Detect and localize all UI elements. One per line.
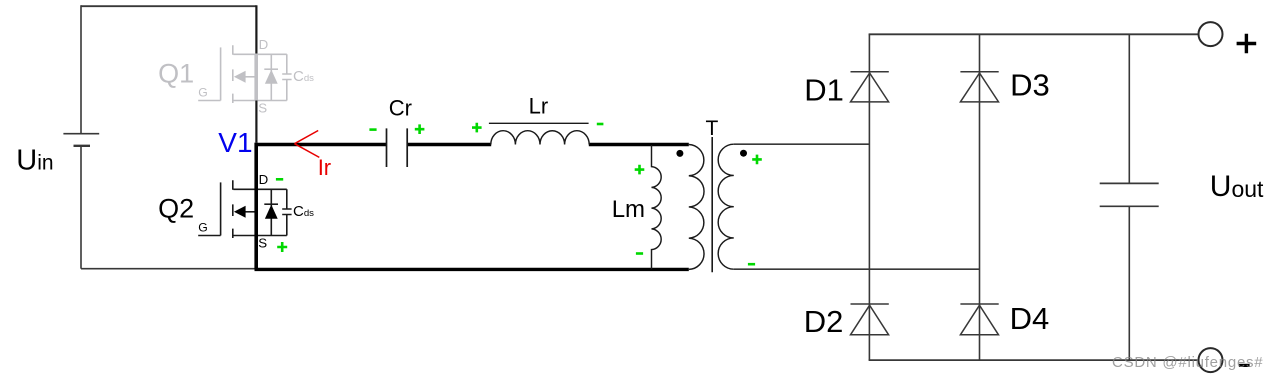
terminal plus sign bbox=[1237, 34, 1257, 54]
svg-text:V1: V1 bbox=[218, 127, 252, 158]
battery Uin plate long bbox=[63, 133, 99, 135]
svg-text:Lm: Lm bbox=[612, 196, 645, 223]
svg-text:Ir: Ir bbox=[318, 155, 331, 180]
capacitor Cr plates bbox=[387, 128, 408, 167]
svg-text:Uin: Uin bbox=[16, 144, 53, 176]
diode D3 bbox=[960, 72, 998, 102]
svg-text:Cr: Cr bbox=[389, 95, 412, 120]
diode D2 bbox=[851, 304, 889, 335]
transistor Q2 channel arrow bbox=[234, 206, 246, 218]
thick bus: Lr to transformer bbox=[589, 143, 689, 146]
current arrow Ir bbox=[295, 131, 320, 158]
svg-text:Q1: Q1 bbox=[158, 58, 194, 88]
transistor Q1 body-diode arrowheads (gray fills) bbox=[234, 71, 246, 83]
svg-text:S: S bbox=[258, 101, 267, 116]
wire output top rail bbox=[869, 33, 1199, 35]
wire input left vertical upper bbox=[80, 5, 82, 133]
svg-text:Uout: Uout bbox=[1210, 170, 1264, 203]
terminal minus sign bbox=[1239, 364, 1250, 367]
diode D1 bbox=[851, 72, 889, 102]
svg-text:S: S bbox=[258, 236, 267, 251]
transformer T secondary dot bbox=[740, 150, 747, 157]
marker plus at Cr right bbox=[415, 124, 425, 134]
wire bridge left leg bbox=[868, 34, 870, 360]
svg-text:D2: D2 bbox=[804, 304, 844, 339]
thick bus: Cr to Lr bbox=[408, 143, 492, 146]
wire output capacitor branch upper bbox=[1128, 34, 1130, 183]
inductor Lr overline bbox=[489, 122, 589, 124]
inductor Lr bbox=[491, 131, 589, 145]
wire input bottom rail thin bbox=[81, 268, 256, 270]
wire Q1 drain vertical bbox=[255, 5, 257, 54]
thick bus: V1 to Cr bbox=[255, 143, 387, 146]
wire output capacitor branch lower bbox=[1128, 206, 1130, 360]
marker minus at Lm bottom bbox=[636, 252, 643, 255]
wire input top rail bbox=[81, 5, 256, 7]
marker minus at Cr left bbox=[369, 128, 376, 131]
thick bus: V1 vertical through Q2 bbox=[254, 143, 258, 270]
svg-text:D3: D3 bbox=[1010, 67, 1050, 102]
wire bridge right leg bbox=[979, 34, 981, 360]
svg-text:Q2: Q2 bbox=[158, 193, 194, 223]
svg-text:Lr: Lr bbox=[529, 94, 549, 119]
marker plus at secondary top bbox=[752, 155, 762, 165]
wire input left vertical lower bbox=[80, 146, 82, 269]
marker minus at Lr right bbox=[597, 123, 604, 126]
inductor Lm bbox=[652, 145, 662, 269]
wire output bottom rail bbox=[869, 359, 1199, 361]
diode D4 bbox=[960, 304, 998, 335]
transformer T primary dot bbox=[676, 150, 683, 157]
terminal positive circle bbox=[1199, 22, 1223, 46]
capacitor Cout plates bbox=[1100, 183, 1159, 206]
transistor Q1 (inactive, gray) bbox=[198, 45, 291, 103]
svg-text:D4: D4 bbox=[1010, 301, 1050, 336]
svg-text:D: D bbox=[259, 172, 269, 187]
transistor Q2 bbox=[198, 180, 291, 238]
transformer T primary winding bbox=[689, 145, 704, 270]
marker plus at Lr left bbox=[472, 123, 482, 133]
thick bus: bottom return rail bbox=[255, 268, 689, 271]
svg-text:CSDN @#liufenges#: CSDN @#liufenges# bbox=[1112, 354, 1263, 371]
svg-text:Cds: Cds bbox=[293, 203, 314, 220]
svg-text:G: G bbox=[198, 220, 207, 234]
svg-text:D1: D1 bbox=[804, 72, 844, 107]
transformer T core bbox=[711, 137, 713, 272]
svg-text:G: G bbox=[198, 85, 207, 99]
terminal negative circle bbox=[1199, 348, 1223, 372]
marker plus at Lm top bbox=[635, 165, 645, 175]
marker plus at Q2 S bbox=[277, 242, 287, 252]
svg-text:D: D bbox=[259, 37, 269, 52]
transistor Q2 body diode triangle bbox=[265, 205, 278, 219]
wire secondary top to bridge bbox=[734, 143, 870, 145]
battery Uin plate short bbox=[74, 145, 91, 147]
wire secondary bottom to bridge bbox=[734, 268, 980, 270]
svg-text:Cds: Cds bbox=[293, 68, 314, 85]
marker minus at Q2 D bbox=[276, 178, 283, 181]
marker minus at secondary bottom bbox=[748, 263, 755, 266]
transformer T secondary winding bbox=[718, 144, 734, 269]
svg-text:T: T bbox=[706, 117, 719, 140]
wire Q1 source to node V1 bbox=[255, 101, 257, 143]
